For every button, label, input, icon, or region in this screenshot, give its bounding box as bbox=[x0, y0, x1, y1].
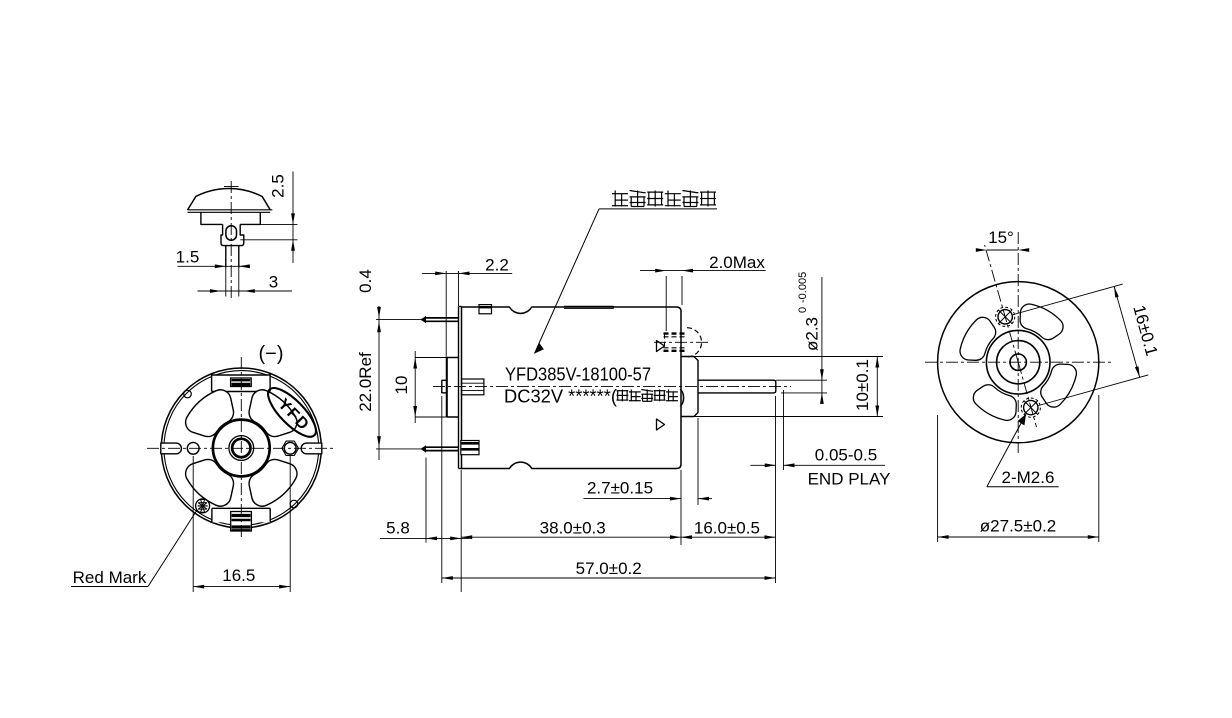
front view - boss inner circle bbox=[997, 341, 1040, 384]
svg-text:ø27.5±0.2: ø27.5±0.2 bbox=[980, 517, 1056, 536]
dimension 2.5 vertical bbox=[240, 172, 297, 264]
rear view - rim dimple top-left bbox=[184, 390, 192, 398]
svg-text:): ) bbox=[680, 387, 686, 407]
svg-text:1.5: 1.5 bbox=[176, 248, 200, 267]
front view - vertical centerline bbox=[1017, 232, 1019, 453]
label leader laser/inkjet bbox=[535, 191, 718, 354]
rear view - vent slots bbox=[186, 390, 297, 506]
front view - vent slots bbox=[960, 304, 1076, 420]
rear view - left mount hole bbox=[187, 442, 199, 454]
side view - view direction triangle lower bbox=[657, 419, 665, 430]
svg-text:0.4: 0.4 bbox=[356, 269, 375, 293]
svg-text:2.2: 2.2 bbox=[485, 255, 509, 274]
svg-text:Red Mark: Red Mark bbox=[73, 568, 147, 587]
rear view - left crimp tab bbox=[161, 443, 182, 454]
svg-text:2-M2.6: 2-M2.6 bbox=[1002, 468, 1055, 487]
dimension 10 rear boss bbox=[392, 351, 449, 423]
svg-text:2.0Max: 2.0Max bbox=[709, 253, 765, 272]
svg-text:END PLAY: END PLAY bbox=[808, 470, 891, 489]
rear view - shaft hole bold ring bbox=[232, 439, 250, 457]
rear view - bearing outer circle bbox=[229, 436, 254, 461]
dimension 16.0±0.5 bbox=[681, 396, 776, 583]
svg-text:YFD385V-18100-57: YFD385V-18100-57 bbox=[505, 365, 651, 385]
rear view - right mount hole with hex bbox=[282, 441, 299, 455]
side view - voltage and date code text bbox=[504, 387, 617, 407]
side view - rear bearing boss bbox=[447, 358, 459, 418]
svg-text:2.5: 2.5 bbox=[269, 174, 288, 198]
dimension 10±0.1 housing bbox=[682, 357, 883, 417]
side view - label recess on top edge bbox=[564, 306, 614, 308]
rear view - red mark hole crosshatched bbox=[196, 499, 210, 513]
terminal detail - tab lines bbox=[226, 246, 239, 297]
svg-text:2.7±0.15: 2.7±0.15 bbox=[587, 479, 653, 498]
dimension 16.5 bbox=[193, 456, 290, 592]
rear view - outer rim circle bbox=[161, 368, 321, 528]
dimension 2.2 bbox=[422, 255, 512, 417]
svg-text:57.0±0.2: 57.0±0.2 bbox=[576, 559, 642, 578]
side view - view direction triangle upper bbox=[657, 341, 665, 352]
side view - top terminal block on cap bbox=[479, 305, 492, 314]
svg-text:16.5: 16.5 bbox=[222, 566, 255, 585]
svg-text:22.0Ref: 22.0Ref bbox=[356, 352, 375, 412]
dimension 5.8 bbox=[380, 458, 469, 543]
terminal detail - oval hole bbox=[226, 226, 237, 240]
label 2-M2.6 with leader bbox=[987, 414, 1059, 487]
rear view - top terminal block bbox=[212, 374, 271, 392]
dimension 3 bbox=[198, 273, 293, 293]
side view - bottom terminal block on cap bbox=[461, 441, 479, 455]
terminal detail - dome base double line bbox=[188, 210, 273, 213]
side view - brush detail hidden lines bbox=[654, 328, 711, 357]
dimension phi2.3 shaft bbox=[776, 272, 827, 404]
svg-text:ø2.3: ø2.3 bbox=[803, 317, 822, 351]
rear view - horizontal centerline bbox=[147, 447, 336, 449]
side view - rear shaft stub bbox=[442, 380, 447, 393]
rear view - rim dimple bottom-right bbox=[290, 500, 298, 508]
rear view - boss circle bbox=[213, 420, 270, 477]
dimension 15 degrees bbox=[976, 228, 1029, 252]
rear view - bottom terminal block bbox=[212, 508, 270, 522]
side view - output shaft bbox=[698, 380, 776, 393]
svg-text:15°: 15° bbox=[988, 228, 1014, 247]
front view - bottom hole axis line bbox=[1018, 362, 1036, 427]
dimension 2.0Max bbox=[640, 253, 766, 331]
front view - shaft circle bbox=[1010, 354, 1026, 370]
dimension 38.0±0.3 bbox=[461, 470, 681, 592]
dimension 57.0±0.2 bbox=[442, 396, 776, 583]
svg-text:38.0±0.3: 38.0±0.3 bbox=[540, 519, 606, 538]
dimension 16±0.1 inclined bbox=[1013, 284, 1161, 405]
rear view - bottom terminal hatch bbox=[231, 512, 252, 532]
svg-text:16.0±0.5: 16.0±0.5 bbox=[694, 519, 760, 538]
svg-text:-0.005: -0.005 bbox=[797, 272, 809, 303]
rear view - YFD logo ellipse bbox=[261, 381, 323, 443]
terminal detail - flange bbox=[201, 212, 260, 224]
side view - main centerline bbox=[433, 386, 791, 388]
svg-text:DC32V ******(: DC32V ******( bbox=[504, 387, 617, 407]
dimension phi27.5±0.2 bbox=[938, 395, 1099, 542]
svg-text:0.05-0.5: 0.05-0.5 bbox=[815, 446, 877, 465]
svg-text:3: 3 bbox=[269, 273, 278, 292]
terminal detail view - dome cap bbox=[188, 189, 271, 210]
dimension 0.4 and 22.0Ref bbox=[356, 269, 381, 460]
rear view - vertical centerline bbox=[240, 357, 242, 540]
dimension 1.5 bbox=[176, 248, 250, 269]
dimension 2.7±0.15 bbox=[584, 418, 713, 545]
svg-text:0: 0 bbox=[797, 307, 809, 313]
rear view - right crimp tab bbox=[301, 443, 322, 454]
front view - bottom screw hole M2.6 bbox=[1021, 398, 1040, 417]
front view - inclined hole axis line bbox=[985, 245, 1019, 362]
front view - horizontal centerline bbox=[925, 361, 1112, 363]
side view - front bearing housing bbox=[681, 357, 698, 417]
svg-text:(−): (−) bbox=[259, 343, 284, 365]
rear view - inner rim circle bbox=[164, 371, 319, 526]
front view - boss outer circle bbox=[986, 330, 1050, 394]
front view - outer rim circle bbox=[938, 282, 1099, 443]
svg-text:10: 10 bbox=[392, 376, 411, 395]
side view - top terminal wire bbox=[376, 316, 459, 323]
side view - motor can outline with notches bbox=[462, 307, 682, 469]
front view - top screw hole M2.6 bbox=[996, 307, 1015, 326]
svg-text:5.8: 5.8 bbox=[386, 519, 410, 538]
side view - date code CJK text bbox=[617, 387, 686, 407]
side view - bottom terminal wire bbox=[376, 445, 459, 452]
side view - bushing inside cap bbox=[462, 379, 484, 395]
terminal detail - bracket with ears bbox=[221, 224, 244, 245]
red mark label with leader bbox=[71, 510, 197, 587]
rear view - top terminal hatch bbox=[231, 378, 252, 387]
terminal detail - centerline bbox=[224, 181, 239, 299]
svg-text:10±0.1: 10±0.1 bbox=[853, 359, 872, 411]
side view - endcap face double line bbox=[459, 307, 462, 469]
dimension end play 0.05-0.5 bbox=[750, 390, 890, 489]
